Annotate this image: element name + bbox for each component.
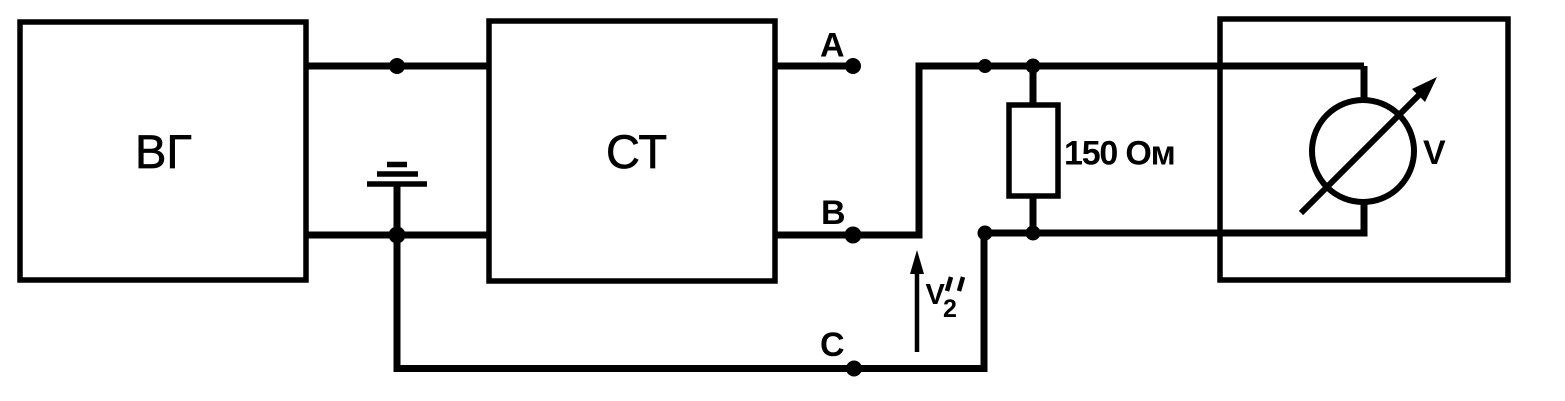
label СТ <box>606 125 667 178</box>
block ВГ (signal generator box) <box>20 22 306 280</box>
ground <box>367 165 427 236</box>
svg-text:150 Ом: 150 Ом <box>1064 135 1175 173</box>
voltmeter circle <box>1312 100 1414 202</box>
label A <box>820 27 845 65</box>
label B <box>821 194 846 232</box>
wire ВГ to СТ (bottom) <box>306 232 489 239</box>
wire ground branch down to C line <box>394 235 401 369</box>
wire C line up to resistor bottom <box>981 233 988 372</box>
node A terminal dot <box>845 58 861 74</box>
svg-text:2: 2 <box>943 295 957 323</box>
block СТ (box) <box>489 21 775 281</box>
voltmeter box <box>1220 19 1508 280</box>
junction dot (top, ground branch) <box>389 58 405 74</box>
label V2'' <box>926 277 964 323</box>
resistor R 150 Ом <box>1009 66 1058 233</box>
svg-text:СТ: СТ <box>606 125 667 178</box>
label C <box>820 326 845 364</box>
label ВГ <box>135 125 192 178</box>
svg-text:ВГ: ВГ <box>135 125 192 178</box>
wire top run to voltmeter <box>916 63 1365 70</box>
wire node B to riser <box>853 232 919 239</box>
wire up to voltmeter circle bottom <box>1361 201 1368 237</box>
wire down to voltmeter circle top <box>1361 66 1368 101</box>
junction dot resistor bottom <box>1026 226 1041 241</box>
wire ВГ to СТ (top) <box>306 63 489 70</box>
voltmeter needle arrow <box>1301 77 1437 213</box>
arrow V2'' (voltage arrow) <box>910 250 924 352</box>
svg-text:А: А <box>820 27 845 65</box>
node C terminal dot <box>846 361 862 377</box>
junction dot resistor top <box>1026 59 1041 74</box>
node B terminal dot <box>845 227 862 244</box>
junction dot bottom run left <box>978 226 993 241</box>
wire C line (bottom horizontal) <box>394 365 985 372</box>
label 150 Ом <box>1064 135 1175 173</box>
junction dot (bottom, ground branch) <box>389 227 406 244</box>
wire riser B up <box>916 66 923 239</box>
svg-text:С: С <box>820 326 845 364</box>
wire bottom run to voltmeter <box>984 230 1364 237</box>
svg-text:В: В <box>821 194 846 232</box>
junction dot on top run <box>978 59 992 73</box>
label V <box>1423 134 1446 172</box>
svg-text:V: V <box>1423 134 1446 172</box>
wire СТ to node B <box>775 232 853 239</box>
wire СТ to node A <box>775 63 853 70</box>
